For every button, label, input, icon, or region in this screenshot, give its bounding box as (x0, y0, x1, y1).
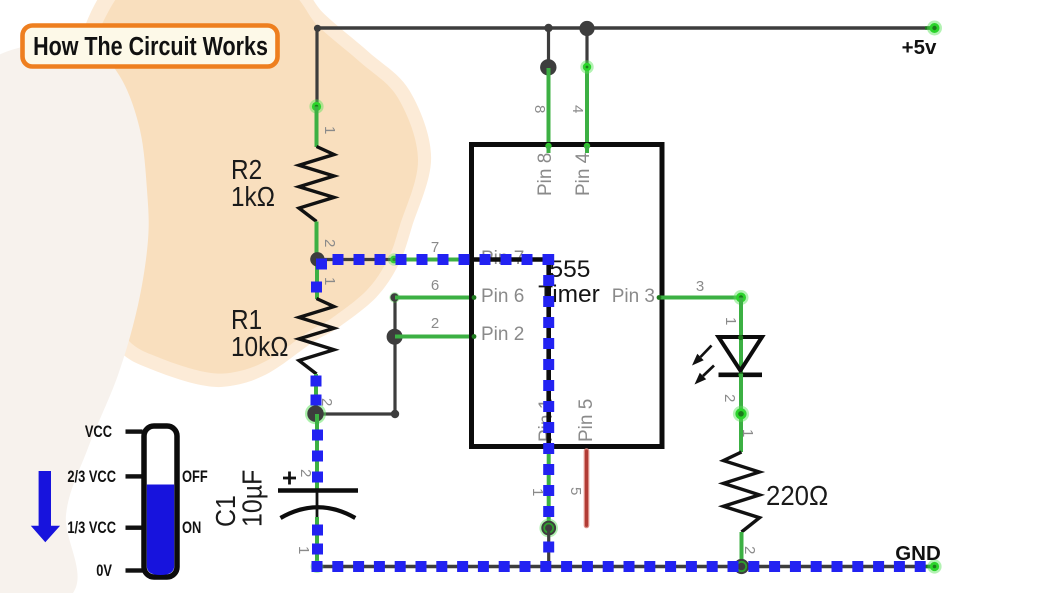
node: rail/pin4 junction (579, 21, 594, 36)
wire: pin 8 (green) (547, 68, 551, 152)
svg-text:4: 4 (569, 105, 586, 113)
wire: ground rail (317, 565, 935, 568)
svg-text:3: 3 (696, 278, 704, 295)
LED D1 (719, 337, 763, 375)
node: pin6 stub endpoint at IC border (472, 295, 477, 300)
node: rail/pin8 junction (544, 24, 552, 32)
wire: pin8 stub inside box (547, 146, 551, 153)
node: pin1/gnd junction (539, 519, 558, 538)
wire: top rail down to R2 (315, 28, 318, 107)
node: pin7 green endpoint (388, 253, 400, 265)
wire: pin1 junction to rail (547, 528, 550, 566)
node: pin8 feed junction (540, 59, 556, 75)
node: pin3 corner endpoint (734, 290, 749, 305)
svg-text:2: 2 (741, 546, 758, 554)
wire: C1 top lead (green) (315, 414, 319, 490)
wire: C1 bottom lead (green) (315, 517, 319, 567)
svg-text:1kΩ: 1kΩ (231, 180, 275, 212)
svg-text:Pin 3: Pin 3 (612, 286, 655, 307)
svg-text:6: 6 (431, 277, 439, 294)
C1 curved plate (281, 507, 356, 518)
svg-text:2: 2 (321, 239, 338, 247)
title badge: How The Circuit Works (23, 26, 278, 67)
node: rail right end (green endpoint) (925, 26, 934, 29)
meter label 0V (96, 563, 112, 581)
wire: pin 6 (green) (395, 296, 478, 300)
node: pin2 junction (387, 329, 403, 345)
wire current-path squares: pin7 horizontal run (316, 259, 327, 270)
svg-text:7: 7 (431, 239, 439, 256)
wire: pin7 run green segment (394, 258, 476, 262)
wire current-path squares: C1 branch (312, 430, 323, 441)
node: R2 top endpoint (green) (309, 99, 323, 113)
wire current-path squares: 555 internal discharge run down (543, 275, 554, 286)
svg-text:VCC: VCC (85, 424, 112, 442)
meter tube (144, 426, 177, 577)
svg-text:+5v: +5v (902, 36, 937, 59)
svg-text:Pin 6: Pin 6 (481, 286, 524, 307)
svg-text:1: 1 (321, 277, 338, 285)
node: LED cathode tiny dot (738, 372, 743, 377)
wire current-path squares: ground rail (312, 561, 323, 572)
node: rail right end (green) (925, 565, 934, 568)
node: pin8 border crossing dot (545, 143, 551, 149)
wire: pin 3 (green) (658, 296, 741, 300)
svg-text:5: 5 (567, 487, 584, 495)
op-amp/timer IC U1: 555 box (472, 145, 663, 447)
svg-text:1: 1 (739, 429, 756, 437)
svg-text:2/3 VCC: 2/3 VCC (67, 469, 116, 487)
label R1 10kOhm (231, 303, 262, 335)
meter blue fill (147, 485, 174, 576)
capacitor C1 (210, 414, 358, 567)
svg-text:0V: 0V (96, 563, 112, 581)
wire: rail stub down to pin4 feed (585, 28, 588, 67)
meter tick VCC (126, 429, 143, 433)
wire: R2 pin1 lead (green) (315, 107, 319, 148)
meter label 1/3 VCC (67, 520, 116, 538)
svg-text:Pin 2: Pin 2 (481, 324, 524, 345)
svg-text:2: 2 (297, 469, 314, 477)
node: pin4 border crossing dot (584, 143, 590, 149)
wire: rail stub down to pin8 feed (547, 28, 550, 67)
wire: pin 2 (green) (395, 335, 478, 339)
svg-text:1/3 VCC: 1/3 VCC (67, 520, 116, 538)
C1 top plate (278, 488, 358, 493)
node: pin3 stub at IC border (657, 295, 662, 300)
meter tick 0V (126, 568, 143, 572)
wire: pin7 run dark segment (317, 258, 394, 261)
node: R2/R1/pin7 junction (310, 252, 324, 266)
wire: R1 pin2 lead (green) (314, 374, 318, 414)
wire: 555 internal discharge path (thick black) (474, 260, 549, 448)
node: LED/resistor junction (green) (733, 406, 749, 422)
meter label ON (182, 520, 201, 538)
node: C1 corner endpoint (311, 560, 324, 573)
wire: pin 1 lead below IC (green) (547, 447, 551, 528)
LED light arrows (692, 346, 714, 385)
falling-voltage blue arrow (31, 471, 60, 542)
resistor R1 (299, 299, 334, 375)
label R2 1kOhm (231, 153, 262, 185)
wire: R1 pin1 lead (green) (315, 260, 319, 300)
meter label 2/3 VCC (67, 469, 116, 487)
threshold meter (31, 424, 208, 581)
wire: pin4 stub inside box (585, 146, 589, 153)
resistor R2 (299, 147, 334, 222)
meter label OFF (182, 469, 208, 487)
wire: between plates (dark stub) (316, 492, 319, 522)
wire: pin 4 (green) (585, 67, 589, 152)
label 220 Ohm (766, 480, 828, 511)
wire: pin 5 stub (red, unconnected) (584, 451, 590, 526)
node: rail/R2 corner dot (314, 25, 321, 32)
node: pin2 stub endpoint at IC border (472, 334, 477, 339)
svg-text:How The Circuit Works: How The Circuit Works (33, 32, 268, 61)
wire: +5V top rail (317, 26, 935, 29)
meter tick 1/3 (126, 526, 143, 530)
meter tick 2/3 (126, 474, 143, 478)
svg-text:8: 8 (531, 105, 548, 113)
wire: threshold/trigger L-link (dark) (316, 412, 395, 415)
node: pin4 wire top endpoint (580, 60, 593, 73)
node: 220/gnd junction (734, 559, 749, 574)
wire: LED cathode lead (green) (739, 374, 743, 452)
meter label VCC (85, 424, 112, 442)
svg-text:10kΩ: 10kΩ (231, 330, 288, 362)
wire: R2 pin2 lead (green) (315, 222, 319, 260)
node: corner dot (391, 410, 399, 418)
svg-text:1: 1 (722, 317, 739, 325)
node: LED anode tiny dot (738, 335, 743, 340)
plus sign (283, 477, 296, 480)
svg-text:Pin 4: Pin 4 (573, 152, 594, 196)
svg-text:OFF: OFF (182, 469, 208, 487)
svg-text:1: 1 (295, 546, 312, 554)
node: pin6 endpoint (389, 292, 399, 302)
resistor R3 220 Ohm (724, 452, 760, 532)
svg-text:ON: ON (182, 520, 201, 538)
wire current-path squares: R1 branch (311, 282, 322, 293)
wire: 220 resistor bottom lead (green) (740, 532, 744, 566)
node: R1 bottom junction (green glow under dark dot) (305, 403, 326, 424)
svg-text:2: 2 (721, 394, 738, 402)
wire: LED anode lead (green) (739, 298, 743, 375)
svg-text:220Ω: 220Ω (766, 480, 828, 511)
svg-text:Pin 8: Pin 8 (535, 153, 556, 196)
svg-text:1: 1 (321, 126, 338, 134)
svg-text:2: 2 (431, 315, 439, 332)
svg-text:10µF: 10µF (236, 470, 268, 527)
svg-text:555: 555 (550, 256, 591, 283)
svg-text:Pin 5: Pin 5 (576, 399, 597, 442)
